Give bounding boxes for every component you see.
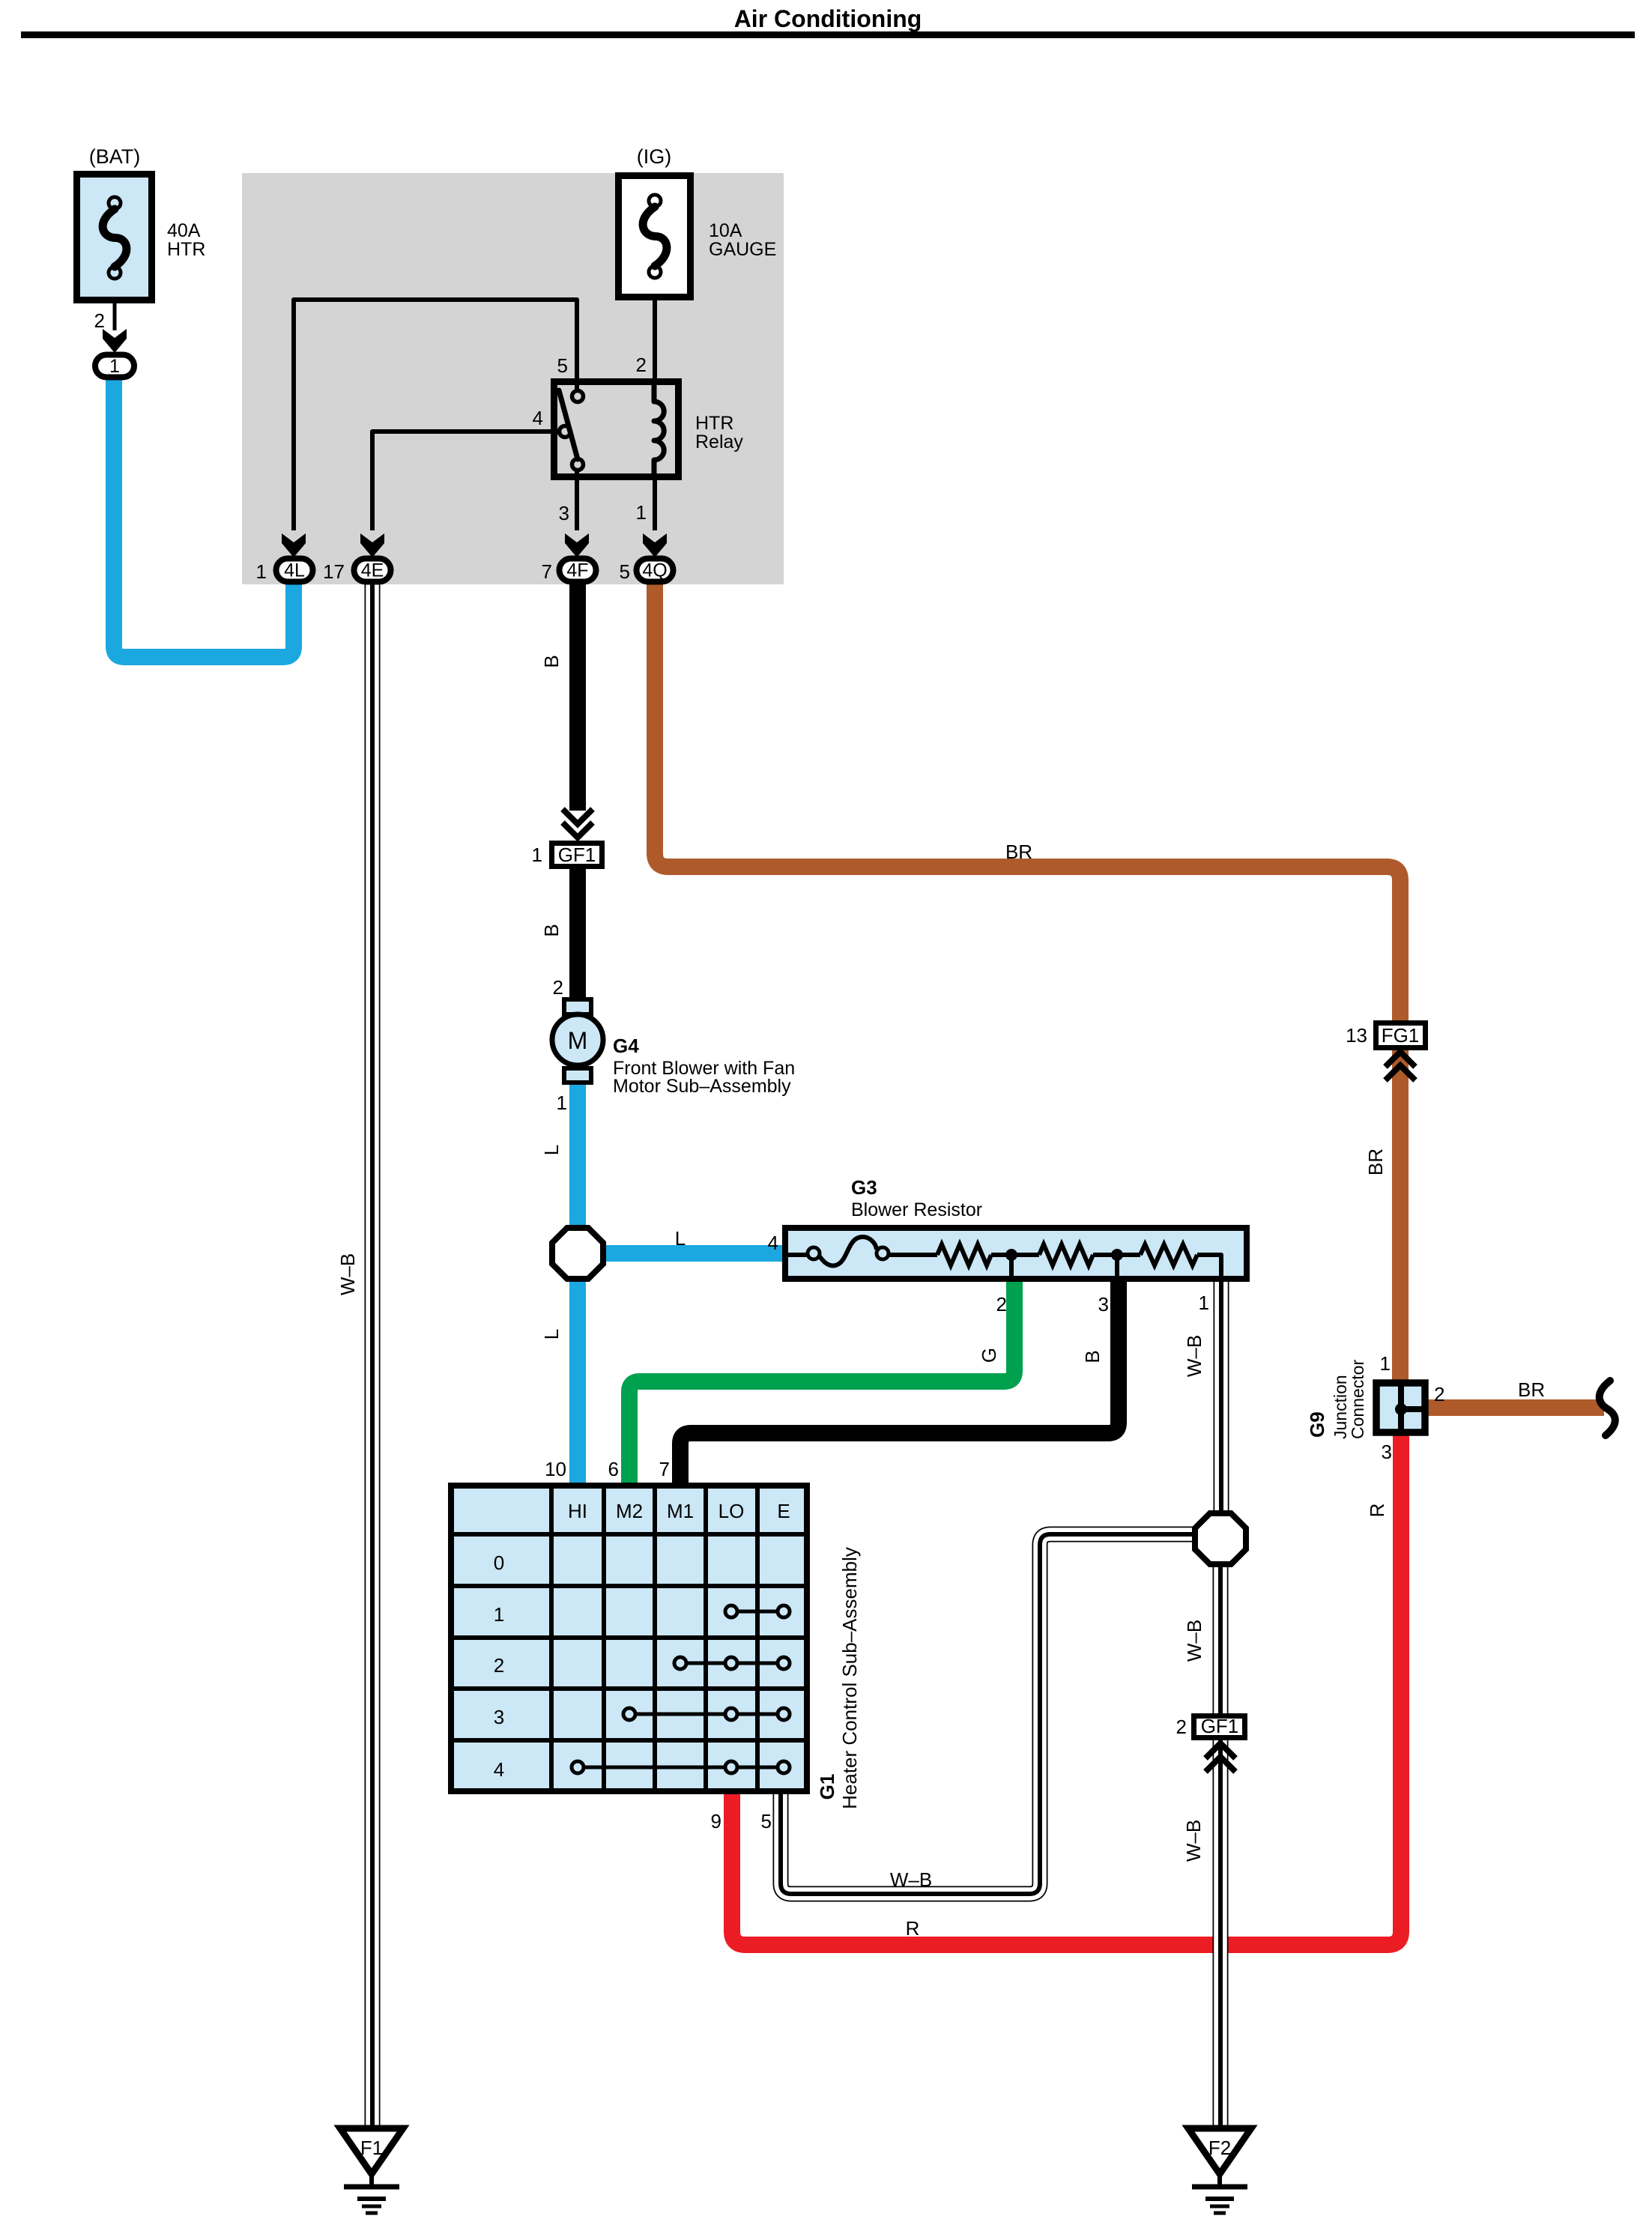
- junction connector G9: [1376, 1383, 1425, 1432]
- svg-text:5: 5: [761, 1810, 772, 1832]
- svg-text:BR: BR: [1518, 1378, 1545, 1401]
- svg-text:2: 2: [94, 309, 105, 332]
- svg-text:6: 6: [608, 1458, 619, 1480]
- svg-text:R: R: [906, 1917, 920, 1940]
- svg-text:W–B: W–B: [1183, 1335, 1205, 1377]
- wire BR (brown) FG1 to G9 pin 1: [1392, 1049, 1409, 1381]
- connector 4Q: [643, 533, 667, 557]
- svg-text:G3: G3: [851, 1176, 877, 1199]
- svg-text:B: B: [540, 655, 563, 667]
- svg-text:BR: BR: [1005, 841, 1032, 863]
- svg-text:HTR: HTR: [167, 239, 205, 260]
- svg-text:17: 17: [323, 560, 345, 583]
- wire L (blue) motor G4 pin 1 to junction: [569, 1083, 586, 1229]
- svg-text:3: 3: [494, 1706, 504, 1728]
- wire relay pin 4 to connector 4E: [372, 432, 560, 530]
- wire B (black) 4F to GF1: [569, 583, 586, 811]
- svg-text:W–B: W–B: [336, 1253, 359, 1295]
- svg-text:Connector: Connector: [1348, 1360, 1367, 1439]
- wire BR (brown) 4Q to FG1: [655, 583, 1400, 1022]
- svg-text:1: 1: [1380, 1352, 1391, 1375]
- svg-text:2: 2: [494, 1654, 504, 1677]
- svg-text:1: 1: [636, 501, 647, 524]
- connector 4F: [565, 533, 589, 557]
- G1 heater control sub-assembly: [451, 1486, 807, 1791]
- svg-text:13: 13: [1346, 1024, 1367, 1047]
- svg-text:2: 2: [1176, 1716, 1187, 1738]
- svg-text:3: 3: [1098, 1293, 1109, 1316]
- svg-text:2: 2: [553, 976, 563, 999]
- svg-text:3: 3: [1382, 1441, 1392, 1463]
- HTR relay: [554, 382, 679, 477]
- connector FG1 (pin 13): [1376, 1023, 1426, 1048]
- svg-text:7: 7: [542, 560, 552, 583]
- wire W-B GF1 to ground F2: [1213, 1739, 1229, 2128]
- svg-text:5: 5: [620, 560, 630, 583]
- svg-text:1: 1: [557, 1092, 567, 1114]
- svg-text:40A: 40A: [167, 220, 201, 241]
- svg-text:0: 0: [494, 1552, 504, 1574]
- wire R (red) G1 pin 9 to G9 pin 3: [732, 1433, 1401, 1945]
- wire relay pin 3 to connector 4F: [575, 469, 579, 530]
- svg-text:4: 4: [494, 1758, 504, 1781]
- G1 switch row 3: M2-LO-E: [629, 1713, 784, 1716]
- svg-text:HI: HI: [568, 1500, 587, 1522]
- G3 node to pin 2: [1005, 1249, 1017, 1261]
- relay switch contacts: [572, 391, 584, 402]
- wire L (blue) junction to G3 pin 4: [603, 1245, 785, 1262]
- svg-text:BR: BR: [1364, 1148, 1387, 1175]
- svg-text:(IG): (IG): [637, 145, 672, 168]
- svg-text:GAUGE: GAUGE: [709, 239, 776, 260]
- svg-text:1: 1: [109, 356, 120, 377]
- svg-text:F1: F1: [360, 2137, 383, 2159]
- svg-text:2: 2: [1434, 1383, 1444, 1405]
- G3 internal resistors: [889, 1253, 937, 1257]
- svg-text:4E: 4E: [361, 560, 384, 581]
- connector 4E: [360, 533, 384, 557]
- relay coil: [654, 380, 664, 479]
- wire W-B G1 pin 5 to junction: [781, 1534, 1196, 1894]
- wire B (black) GF1 to motor G4 pin 2: [569, 869, 586, 999]
- svg-text:F2: F2: [1208, 2137, 1231, 2159]
- svg-text:M1: M1: [667, 1500, 694, 1522]
- svg-text:FG1: FG1: [1382, 1024, 1420, 1047]
- svg-text:2: 2: [996, 1293, 1007, 1316]
- wire BR (brown) G9 pin 2 to harness break: [1426, 1399, 1604, 1416]
- G3 node to pin 3: [1111, 1249, 1123, 1261]
- svg-text:B: B: [1081, 1350, 1104, 1363]
- svg-text:1: 1: [532, 844, 542, 866]
- connector 1 (battery side): [103, 329, 127, 353]
- svg-text:B: B: [540, 924, 563, 936]
- svg-text:7: 7: [659, 1458, 670, 1480]
- svg-text:L: L: [675, 1227, 686, 1250]
- svg-text:L: L: [540, 1329, 563, 1339]
- wire fuse HTR pin 2 to connector 1: [113, 302, 117, 330]
- svg-text:GF1: GF1: [1201, 1715, 1239, 1737]
- svg-text:Motor Sub–Assembly: Motor Sub–Assembly: [613, 1076, 791, 1097]
- svg-text:9: 9: [711, 1810, 721, 1832]
- svg-text:4Q: 4Q: [642, 560, 667, 581]
- G1 switch row 4: HI-LO-E: [578, 1766, 784, 1770]
- junction block (gray box): [242, 173, 784, 584]
- svg-text:10A: 10A: [709, 220, 742, 241]
- svg-text:Heater Control Sub–Assembly: Heater Control Sub–Assembly: [838, 1547, 861, 1809]
- svg-text:LO: LO: [718, 1500, 745, 1522]
- G3 internal fuse element: [788, 1253, 808, 1257]
- ground F1: [340, 2128, 403, 2174]
- svg-text:G1: G1: [816, 1774, 838, 1800]
- svg-text:4: 4: [768, 1232, 778, 1254]
- wire W-B 4E to ground F1: [365, 583, 381, 2128]
- junction (octagon) blue L: [552, 1228, 603, 1279]
- svg-text:5: 5: [557, 354, 568, 377]
- svg-text:R: R: [1366, 1504, 1388, 1518]
- svg-text:G4: G4: [613, 1035, 639, 1057]
- svg-text:G: G: [978, 1348, 1000, 1363]
- svg-text:W–B: W–B: [1182, 1820, 1205, 1862]
- svg-text:3: 3: [559, 502, 569, 524]
- svg-text:HTR: HTR: [695, 413, 733, 434]
- ground F2: [1188, 2128, 1251, 2174]
- svg-text:G9: G9: [1306, 1411, 1328, 1438]
- svg-text:Blower Resistor: Blower Resistor: [851, 1199, 982, 1220]
- svg-text:4F: 4F: [566, 560, 588, 581]
- svg-text:M: M: [568, 1027, 588, 1054]
- svg-text:Relay: Relay: [695, 432, 743, 452]
- svg-text:1: 1: [1199, 1292, 1209, 1314]
- svg-text:(BAT): (BAT): [89, 145, 141, 168]
- wire W-B G3 pin 1 to junction: [1214, 1280, 1229, 1515]
- svg-text:M2: M2: [616, 1500, 643, 1522]
- connector GF1 top (pin 1): [563, 809, 593, 824]
- wire relay coil pin 1 to connector 4Q: [653, 479, 657, 530]
- harness continuation squiggle: [1600, 1381, 1615, 1435]
- wire B (black) G3 pin 3 to G1 pin 7: [680, 1280, 1119, 1484]
- wire fuse GAUGE to relay pin 2: [653, 299, 657, 380]
- wire L (blue) from connector 1 to 4L: [114, 378, 294, 657]
- G1 switch row 1: LO-E: [731, 1610, 784, 1614]
- svg-text:W–B: W–B: [1183, 1620, 1205, 1662]
- wire relay pin 5 to connector 4L: [294, 300, 577, 530]
- svg-text:Air Conditioning: Air Conditioning: [734, 5, 922, 32]
- junction (octagon) W-B: [1195, 1513, 1246, 1564]
- svg-text:10: 10: [545, 1458, 566, 1480]
- G1 switch row 2: M1-LO-E: [680, 1662, 784, 1665]
- svg-text:1: 1: [494, 1603, 504, 1626]
- wire W-B junction to GF1: [1213, 1563, 1229, 1715]
- svg-text:4: 4: [533, 407, 543, 429]
- wire L (blue) junction to G1 pin 10: [569, 1278, 586, 1484]
- svg-text:E: E: [777, 1500, 790, 1522]
- svg-text:4L: 4L: [284, 560, 305, 581]
- svg-text:W–B: W–B: [890, 1868, 932, 1891]
- connector 4L: [282, 533, 306, 557]
- svg-text:L: L: [540, 1145, 563, 1155]
- svg-text:1: 1: [256, 560, 267, 583]
- svg-text:GF1: GF1: [558, 844, 596, 866]
- svg-text:2: 2: [636, 354, 647, 376]
- connector GF1 bottom (pin 2): [1194, 1716, 1245, 1738]
- wire G (green) G3 pin 2 to G1 pin 6: [629, 1280, 1014, 1484]
